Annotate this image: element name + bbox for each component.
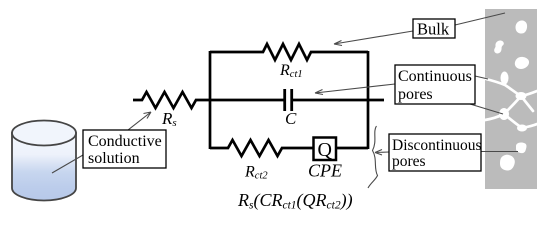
svg-text:CPE: CPE [308, 161, 342, 181]
capacitor C [285, 89, 292, 111]
resistor Rct2 (bottom branch wire) [210, 140, 313, 156]
wire: bottom branch right segment [336, 147, 368, 150]
arrow: conductive box to Rs [128, 112, 151, 130]
svg-text:solution: solution [88, 150, 140, 167]
arrow: Discontinuous pores box to brace [375, 150, 389, 156]
pore blob fan [515, 57, 529, 69]
svg-text:Bulk: Bulk [417, 20, 450, 39]
connector: Bulk box to gray block [455, 13, 505, 25]
pore blob mitten [500, 155, 515, 171]
wire: middle branch left segment [208, 99, 284, 102]
crack network (continuous pores) [485, 79, 537, 128]
svg-text:Q: Q [318, 139, 333, 161]
pore blob top round [516, 20, 528, 33]
arrow: Continuous pores box to capacitor wire [315, 84, 395, 95]
curly brace [368, 126, 378, 188]
svg-text:Rct1: Rct1 [279, 62, 303, 80]
connector: Discontinuous pores box to blob [481, 151, 518, 153]
box: Continuous pores [395, 65, 475, 104]
box: Conductive solution [83, 130, 166, 168]
wire: left vertical [209, 51, 212, 149]
beaker top ellipse [12, 121, 76, 146]
beaker body (conductive solution) [12, 133, 76, 201]
resistor Rs (with input lead wire) [133, 92, 208, 108]
connector: Continuous pores box to crack top [475, 76, 488, 79]
crack node blobs [501, 72, 509, 85]
arrow: Bulk box to top branch [334, 31, 413, 46]
svg-text:Rs(CRct1(QRct2)): Rs(CRct1(QRct2)) [237, 190, 353, 212]
connector: Continuous pores box to crack node [470, 104, 503, 114]
pore blob small square (discontinuous) [516, 143, 527, 154]
pore blob bean [494, 41, 504, 54]
svg-text:Rs: Rs [161, 109, 177, 129]
svg-text:pores: pores [398, 86, 433, 103]
svg-text:Rct2: Rct2 [244, 164, 268, 182]
resistor Rct1 (top branch wire) [210, 44, 368, 60]
box: Discontinuous pores [389, 134, 481, 171]
wire: right vertical [367, 51, 370, 149]
svg-text:Conductive: Conductive [88, 133, 162, 150]
wire: middle branch right segment [292, 99, 384, 102]
gray microstructure block [485, 9, 537, 189]
connector: box to liquid [52, 155, 83, 173]
svg-text:C: C [285, 109, 297, 128]
svg-text:Continuous: Continuous [398, 68, 472, 85]
CPE element Q (box) [314, 138, 337, 161]
svg-text:Discontinuous: Discontinuous [392, 137, 482, 154]
svg-text:pores: pores [392, 153, 426, 170]
box: Bulk [413, 19, 455, 38]
